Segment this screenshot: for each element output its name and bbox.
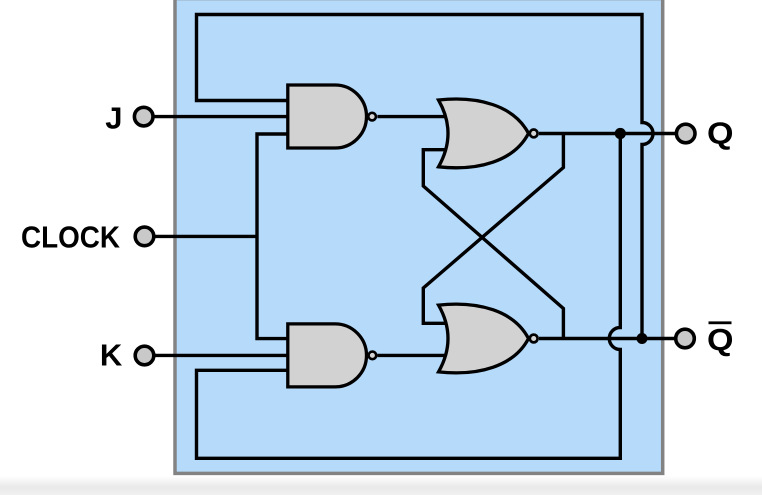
junction node on Qbar line — [637, 333, 648, 344]
NOR1 output bubble — [530, 130, 538, 138]
overbar of Qbar — [709, 321, 732, 324]
svg-text:J: J — [105, 101, 122, 136]
junction node on Q line — [615, 128, 626, 139]
wire NAND2 output to NOR2 input — [377, 354, 450, 357]
bottom gray strip — [0, 476, 762, 495]
wire NOR2 output to Qbar terminal — [539, 337, 685, 340]
svg-text:Q: Q — [707, 322, 734, 357]
svg-text:Q: Q — [707, 116, 734, 151]
NOR gate 1 (Q side) — [439, 99, 529, 168]
wire NAND1 output to NOR1 input — [377, 115, 450, 118]
svg-text:CLOCK: CLOCK — [21, 220, 121, 255]
wire CLOCK input — [145, 235, 258, 238]
NOR gate 2 (Qbar side) — [439, 304, 529, 373]
terminal Q — [676, 124, 695, 143]
NOR2 output bubble — [530, 335, 538, 343]
svg-text:K: K — [100, 338, 123, 373]
terminal CLOCK — [135, 227, 154, 246]
NAND gate 1 (J side) — [288, 85, 367, 148]
NAND gate 2 (K side) — [288, 324, 367, 387]
terminal Qbar — [676, 329, 695, 348]
wire clock branch to both NAND gates — [257, 134, 290, 339]
terminal K — [135, 346, 154, 365]
wire Qbar feedback: top NAND top input, over the top, down to Qbar node (hop over Q line) — [197, 15, 654, 339]
wire NOR1 output to Q terminal — [539, 132, 686, 135]
wire cross branch Q to NOR2 input — [423, 134, 563, 324]
IC body (blue box) — [175, 0, 663, 473]
wire K input — [145, 354, 291, 357]
NAND1 output bubble — [368, 113, 376, 121]
wire J input — [144, 115, 290, 118]
terminal J — [134, 107, 153, 126]
NAND2 output bubble — [369, 352, 377, 360]
wire cross branch Qbar to NOR1 input — [423, 150, 563, 339]
wire Q feedback: from Q node down (hop over Qbar line), along bottom, up into bottom NAND bottom input — [197, 134, 621, 459]
